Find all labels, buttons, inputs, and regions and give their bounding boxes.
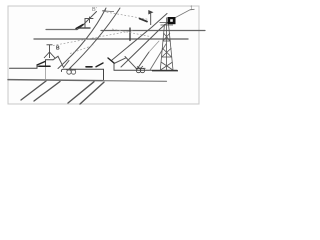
svg-text:1: 1 xyxy=(190,6,193,12)
svg-text:B′: B′ xyxy=(92,7,97,13)
svg-text:B: B xyxy=(56,46,60,52)
